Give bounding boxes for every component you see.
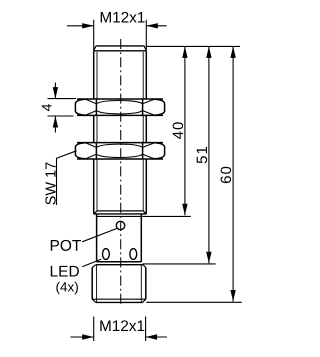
connector top chamfer right bbox=[143, 265, 146, 268]
body top chamfer right bbox=[144, 46, 146, 51]
dimension 60 label bbox=[221, 167, 232, 183]
thread OD line right upper bbox=[145, 51, 147, 99]
thread OD line left upper bbox=[93, 51, 95, 99]
top dimension extension line right bbox=[145, 20, 147, 50]
dimension 51 label bbox=[197, 147, 207, 163]
dimension 51 line bbox=[208, 46, 210, 263]
dimension 60 line bbox=[232, 46, 234, 301]
bottom dimension line right tail bbox=[146, 336, 167, 338]
housing top edge bbox=[97, 215, 142, 217]
bottom dimension line left tail bbox=[70, 336, 93, 338]
thread root line left mid bbox=[96, 116, 98, 143]
housing left edge bbox=[96, 214, 98, 262]
top dimension line right tail bbox=[146, 25, 166, 27]
top dimension arrow right bbox=[146, 23, 158, 28]
SW 17 leader bbox=[57, 151, 77, 205]
hex nut 1 bbox=[75, 99, 164, 115]
bottom dimension arrow right bbox=[146, 334, 158, 339]
dimension 40 line bbox=[184, 46, 186, 215]
thread bottom chamfer right bbox=[143, 211, 146, 214]
thread root line right lower bbox=[142, 159, 144, 211]
body top chamfer left bbox=[94, 46, 96, 51]
thread root line left lower bbox=[96, 159, 98, 211]
dimension 60 extension line bbox=[146, 301, 242, 303]
housing right edge bbox=[140, 214, 142, 262]
POT leader bbox=[82, 229, 117, 242]
thread root line right mid bbox=[142, 116, 144, 143]
dimension 4 arrow top bbox=[54, 83, 56, 99]
connector thread root right bbox=[140, 265, 142, 303]
top dimension M12x1 label bbox=[101, 12, 145, 23]
dimension 51 extension line bbox=[143, 263, 216, 265]
LED leader bbox=[82, 259, 101, 267]
dimension 40 extension line bbox=[141, 215, 191, 217]
bottom dimension M12x1 label bbox=[100, 320, 144, 331]
POT hole bbox=[116, 221, 124, 229]
LED hole left bbox=[103, 249, 110, 260]
LED 4x label bbox=[56, 282, 78, 295]
right reference line top bbox=[146, 45, 240, 47]
top dimension arrow left bbox=[82, 23, 94, 28]
thread OD line left mid bbox=[93, 116, 95, 143]
connector bottom chamfer left bbox=[92, 299, 96, 302]
connector shoulder line bbox=[92, 298, 146, 300]
bottom dimension extension line left bbox=[93, 317, 95, 342]
thread OD line left lower bbox=[93, 159, 95, 214]
SW 17 label bbox=[45, 162, 55, 204]
bottom dimension arrow left bbox=[82, 334, 94, 339]
connector block top face bbox=[96, 264, 143, 266]
connector top chamfer left bbox=[92, 265, 96, 268]
connector left edge bbox=[91, 268, 93, 300]
body top face line bbox=[96, 45, 144, 47]
thread OD line right mid bbox=[145, 116, 147, 143]
housing bottom edge bbox=[97, 261, 142, 263]
thread OD line right lower bbox=[145, 159, 147, 214]
bottom dimension extension line right bbox=[145, 317, 147, 342]
POT label bbox=[51, 240, 81, 251]
connector bottom chamfer right bbox=[143, 299, 146, 302]
dimension 4 extension line top bbox=[48, 98, 77, 100]
thread bottom face line bbox=[97, 210, 143, 212]
LED label bbox=[51, 266, 79, 277]
thread bottom chamfer left bbox=[94, 211, 97, 214]
connector right edge bbox=[145, 268, 147, 300]
thread root line left upper bbox=[96, 52, 98, 99]
connector bottom face bbox=[96, 301, 143, 303]
connector thread root left bbox=[96, 265, 98, 303]
dimension 40 label bbox=[173, 122, 184, 139]
LED hole right bbox=[130, 249, 137, 260]
dimension 4 label bbox=[42, 104, 52, 111]
centerline bbox=[120, 39, 122, 307]
thread bottom od line bbox=[94, 213, 147, 215]
thread root line right upper bbox=[142, 52, 144, 99]
dimension 4 extension line bottom bbox=[48, 115, 74, 117]
hex nut 2 bbox=[75, 143, 164, 159]
top dimension line left tail bbox=[67, 25, 94, 27]
dimension 4 arrow bottom bbox=[54, 116, 56, 133]
top dimension extension line left bbox=[93, 20, 95, 50]
body top shoulder line bbox=[94, 50, 147, 52]
